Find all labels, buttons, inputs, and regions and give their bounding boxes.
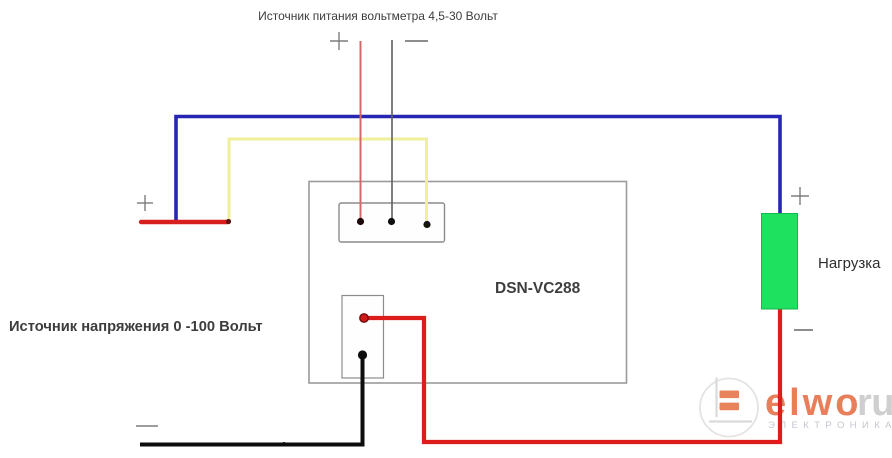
wire: thin red (supply + to pin1) <box>360 41 362 221</box>
wire: gray (supply - to pin2) <box>391 40 393 221</box>
minus symbol (load -) <box>794 329 813 331</box>
wire: red (Vin+ terminal to load -) <box>364 308 780 442</box>
elwo.ru logo circle <box>700 378 758 437</box>
pin 3 (measure) <box>423 221 430 228</box>
pin 1 (red supply) <box>357 218 364 225</box>
junction dot on black wire <box>282 442 286 446</box>
3-pin connector box <box>339 203 445 242</box>
pin 2 (gnd) <box>388 218 395 225</box>
svg-text:Источник напряжения 0 -100 Вол: Источник напряжения 0 -100 Вольт <box>9 319 263 335</box>
2-pin connector box <box>342 296 384 379</box>
load resistor (green) <box>762 214 798 310</box>
svg-text:ru: ru <box>857 382 892 424</box>
plus symbol (voltmeter supply +) <box>330 32 348 50</box>
svg-text:Источник питания вольтметра 4,: Источник питания вольтметра 4,5-30 Вольт <box>258 9 498 23</box>
wire: yellow (measure input to pin3) <box>229 139 427 223</box>
wire: black (Vin- terminal to source -) <box>140 355 363 445</box>
terminal: Vin- (black dot) <box>358 350 367 359</box>
module DSN-VC288 outline <box>309 182 627 384</box>
minus symbol (voltmeter supply -) <box>405 40 428 42</box>
junction dot (yellow/red) <box>226 219 231 224</box>
plus symbol (load +) <box>791 187 809 205</box>
wire: red stub at source + <box>141 220 228 224</box>
plus symbol (voltage source +) <box>137 195 153 211</box>
svg-text:Нагрузка: Нагрузка <box>818 255 881 272</box>
svg-text:DSN-VC288: DSN-VC288 <box>495 280 581 297</box>
svg-text:ЭЛЕКТРОНИКА: ЭЛЕКТРОНИКА <box>768 420 892 431</box>
wire: blue (source + to load +) <box>176 117 780 222</box>
terminal: Vin+ (red dot) <box>360 314 368 322</box>
minus symbol (voltage source -) <box>136 425 158 427</box>
elwo.ru logo text <box>765 382 892 431</box>
